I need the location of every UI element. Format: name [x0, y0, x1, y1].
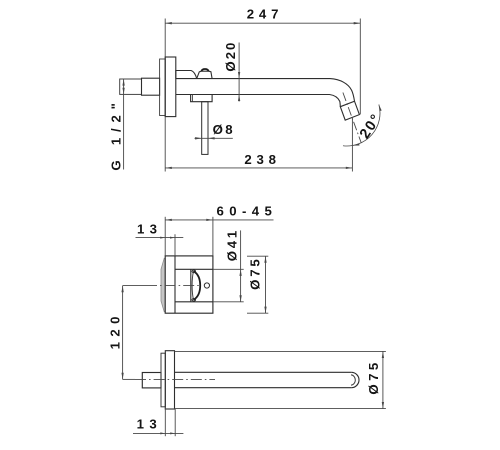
wire: wall flange front plate (top view) [165, 57, 176, 117]
dimension 13 line with arrows (bottom view) [133, 432, 183, 434]
wire: inlet stub [142, 373, 161, 388]
node: extension line for 13 (plate front) [174, 234, 176, 256]
wire: spout rounded tip outer [351, 372, 359, 387]
dimension diam 75 line with arrows (middle view) [265, 256, 267, 313]
wire: spout bend outer edge [330, 79, 355, 102]
svg-text:Ø20: Ø20 [223, 41, 238, 72]
node: extension lines for 13 (bottom view) [164, 407, 166, 436]
wire: wall plate front face line [174, 256, 176, 313]
dimension G 1/2 line with arrows [123, 79, 125, 170]
wire: spout pipe bottom edge [176, 94, 330, 96]
wire: wall flange back plate (top view) [160, 59, 166, 116]
wire: handle cylinder bottom edge [175, 301, 213, 303]
node: extension lines diam 75 (bottom view) [175, 350, 386, 352]
node: extension lines diam 75 (middle view) [247, 255, 268, 257]
dimension diam 8 line with arrows [195, 137, 233, 139]
dimension diam 20 line with arrows [238, 43, 240, 102]
wire: lower valve body [191, 95, 213, 102]
node: centerline of bottom view [123, 378, 135, 380]
svg-text:Ø75: Ø75 [366, 359, 381, 394]
wire: handle lever divider [190, 269, 192, 302]
wire: inlet joint (thick section) [142, 78, 160, 95]
svg-text:Ø8: Ø8 [213, 122, 235, 137]
wire: lower body inner edge [191, 95, 193, 102]
node: right extension line for 238 [351, 119, 353, 172]
wire: spout rounded tip inner [351, 375, 355, 385]
svg-text:247: 247 [247, 7, 283, 22]
wire: lever knob top end [192, 270, 196, 273]
angle dimension arc 20deg [343, 104, 380, 146]
node: extension lines diam 41 [213, 268, 244, 270]
wire: lever knob bottom end [192, 298, 196, 301]
svg-text:Ø75: Ø75 [248, 257, 263, 290]
node: spout axis centerline (tilted 20deg) [343, 93, 361, 144]
node: right extension line for 247 (spout tip) [359, 19, 361, 115]
svg-text:G 1/2": G 1/2" [109, 97, 124, 170]
wire: flange back plate (bottom view) [161, 353, 165, 407]
dimension 60-45 line with arrows [165, 219, 273, 221]
wire: flange front plate (bottom view) [165, 351, 174, 409]
svg-text:120: 120 [108, 311, 123, 349]
svg-text:13: 13 [137, 222, 162, 237]
wire: handle set-screw circle [204, 283, 209, 288]
wire: lever cap dome (thick arc) [201, 69, 208, 71]
node: centerline of middle view [123, 285, 146, 287]
dimension diam 41 line with arrows [240, 230, 242, 301]
wire: spout pipe top edge [176, 78, 330, 80]
wire: handle cylinder top edge (diam 41) [175, 268, 213, 270]
wire: escutcheon body outline [165, 256, 213, 313]
wire: upper valve body [176, 71, 197, 79]
dimension 238 line with arrows [165, 167, 352, 169]
dimension 120 line with arrows [122, 286, 124, 380]
wire: lever knob inner edge [192, 271, 193, 299]
wire: lever cap profile on body [197, 71, 212, 78]
dimension 247 line with arrows [165, 22, 360, 24]
node: wall face extension line (left, for 247/238) [164, 19, 166, 172]
wire: flange rounded rim (gray) [161, 258, 165, 311]
node: extension line wall face up (60-45 left) [164, 217, 166, 256]
dimension 13 line with arrows (middle view) [136, 237, 184, 239]
wire: control rod (diam 8) [202, 102, 208, 155]
wire: lever knob thick arc [194, 271, 201, 300]
wire: spout tube edges (bottom view) [175, 371, 352, 373]
wire: G1/2 inlet nipple (thin section) [120, 79, 142, 94]
svg-text:13: 13 [137, 417, 162, 432]
wire: spout bend inner edge [330, 95, 341, 107]
svg-text:60-45: 60-45 [217, 204, 278, 219]
svg-text:Ø41: Ø41 [225, 228, 240, 261]
wire: aerator end piece (tilted 20deg) [340, 101, 359, 120]
svg-text:238: 238 [244, 152, 280, 167]
node: extension line handle face (60-45 right) [212, 217, 214, 256]
dimension diam 75 line with arrows (bottom view) [382, 351, 384, 408]
